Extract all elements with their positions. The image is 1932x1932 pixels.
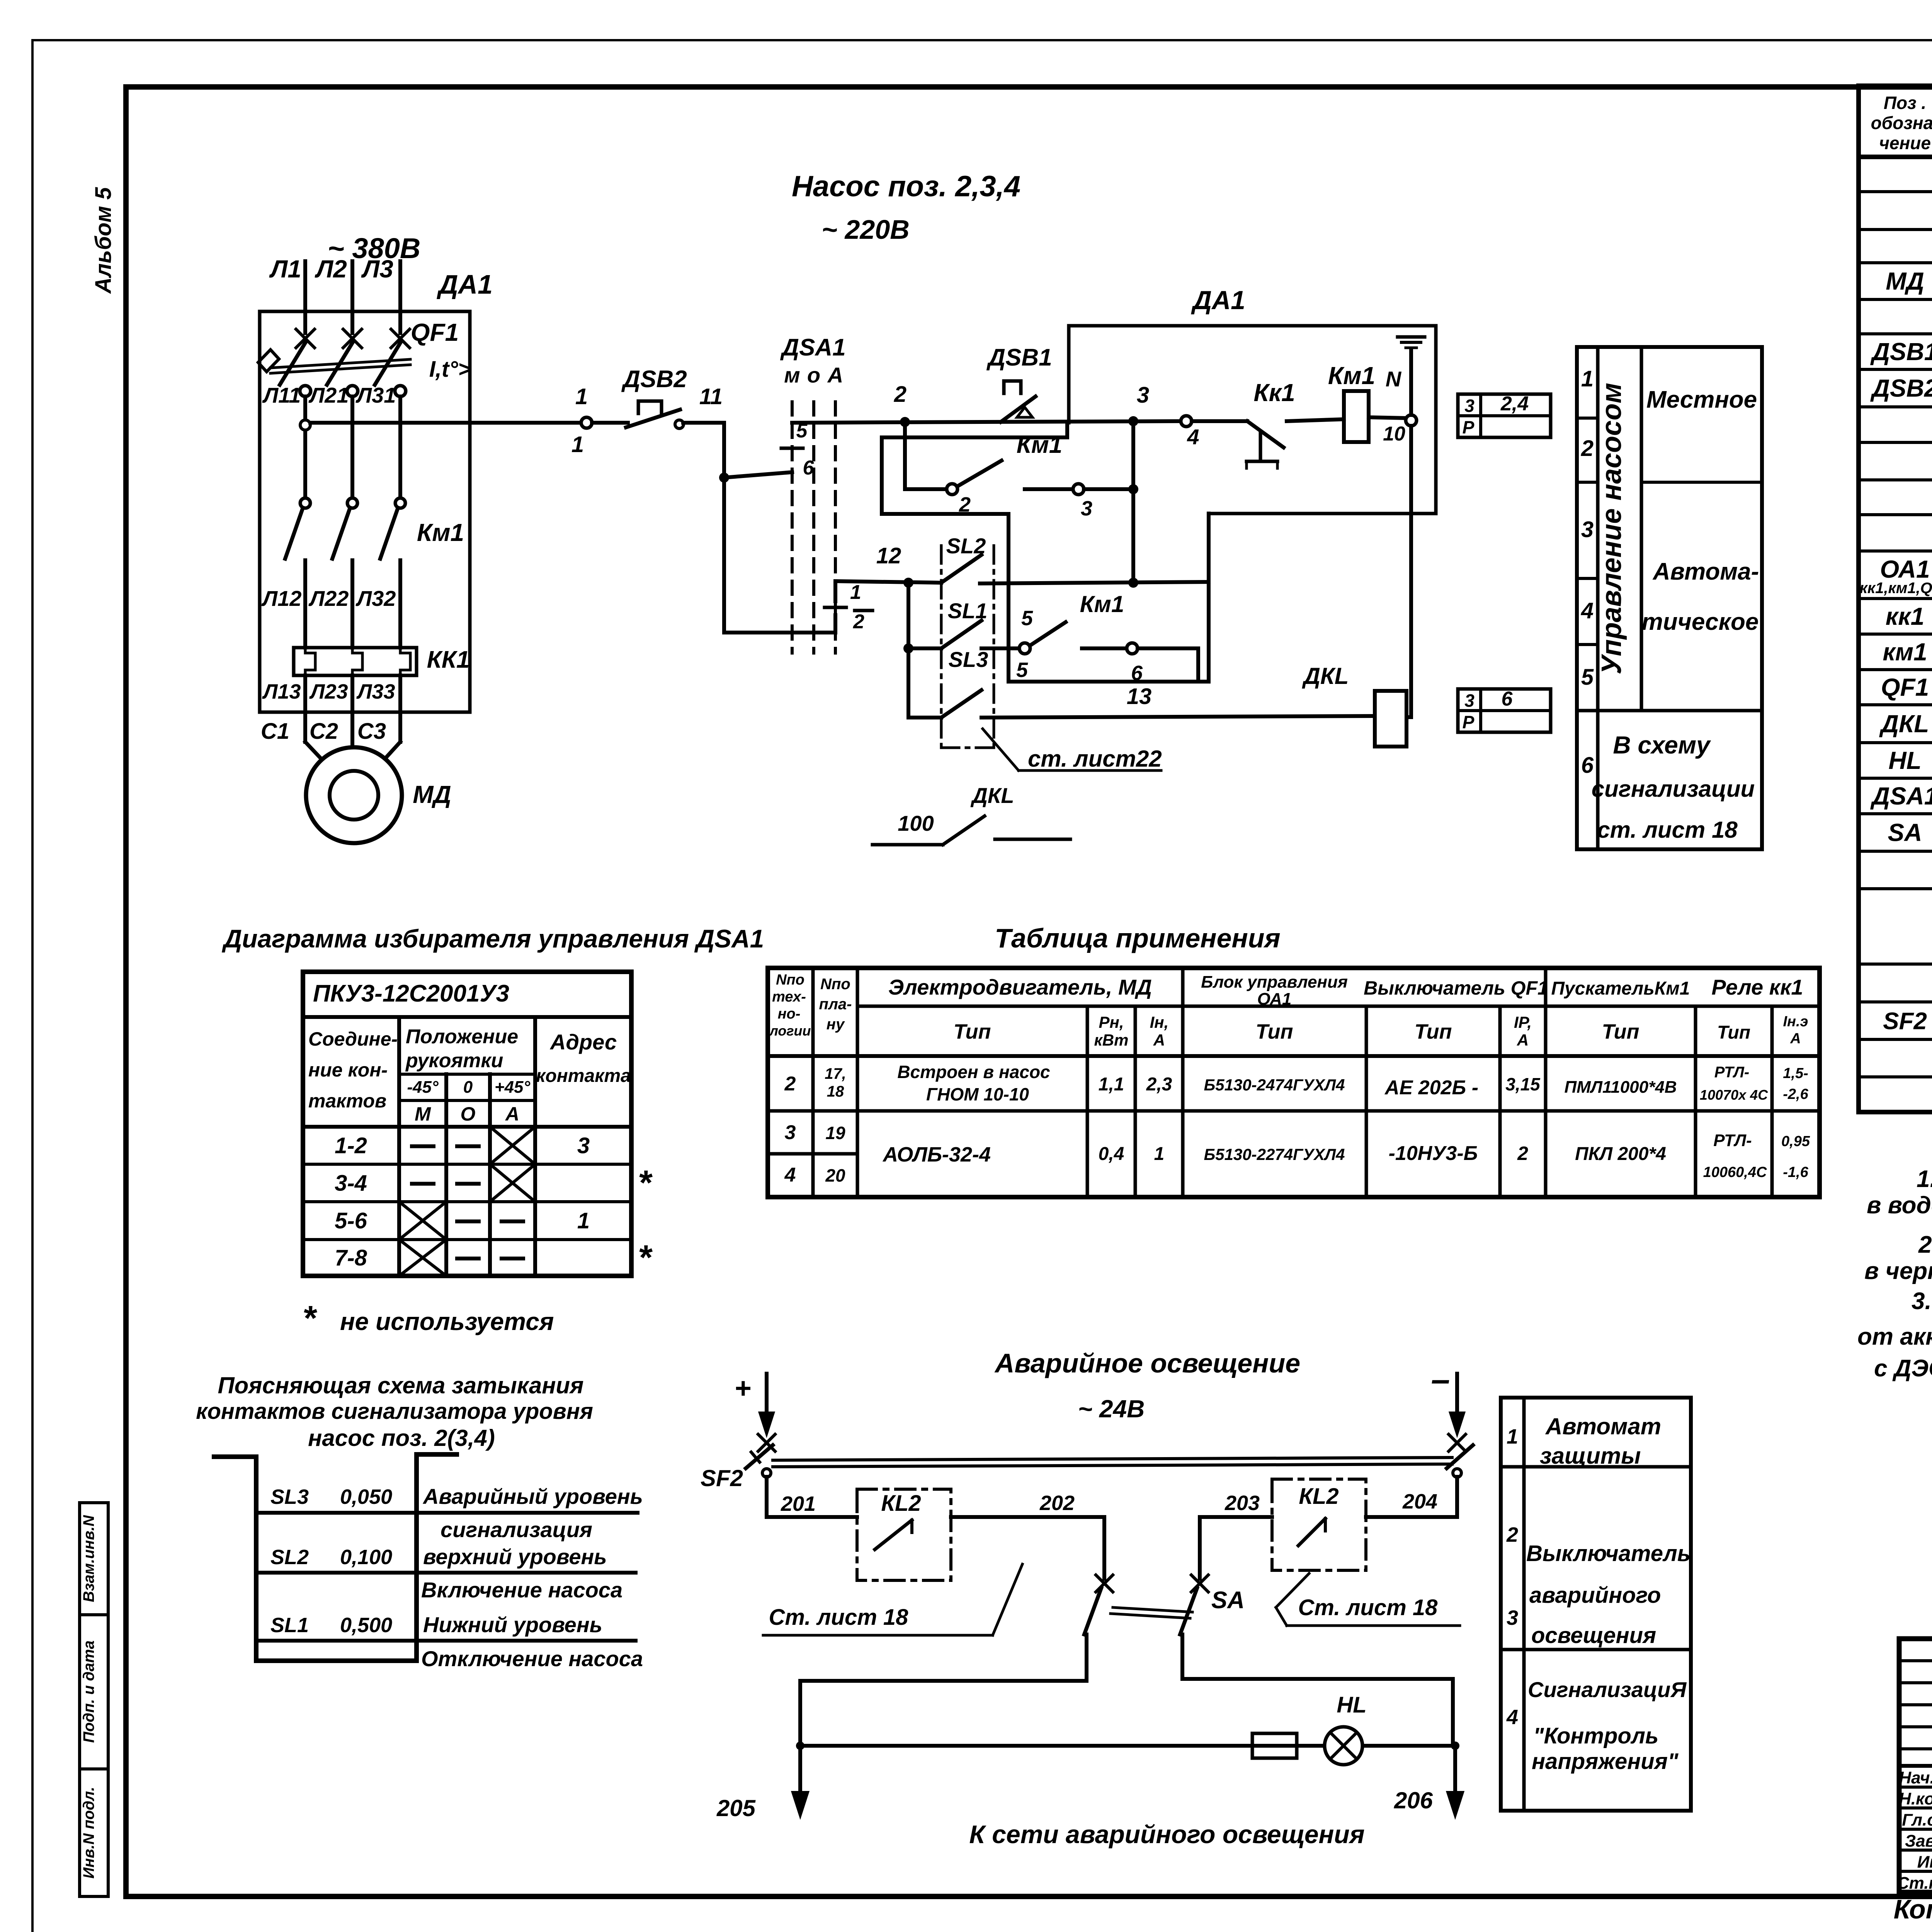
svg-text:А: А [1517,1031,1529,1049]
svg-text:КL2: КL2 [881,1491,921,1516]
svg-text:6: 6 [1502,688,1513,710]
svg-text:в водонасыщенных грунтах.: в водонасыщенных грунтах. [1867,1192,1932,1219]
svg-text:Насос поз. 2,3,4: Насос поз. 2,3,4 [792,170,1020,203]
svg-text:Таблица применения: Таблица применения [995,923,1281,953]
svg-text:кВт: кВт [1094,1031,1129,1049]
svg-text:ДКL: ДКL [1302,663,1349,689]
svg-text:О: О [461,1103,476,1125]
svg-text:Л2: Л2 [315,255,347,283]
svg-text:0,050: 0,050 [340,1485,392,1509]
svg-text:РТЛ-: РТЛ- [1713,1131,1752,1150]
svg-text:3: 3 [1464,396,1475,416]
svg-text:Б5130-2474ГУХЛ4: Б5130-2474ГУХЛ4 [1204,1076,1345,1094]
svg-text:205: 205 [716,1795,756,1821]
svg-text:РТЛ-: РТЛ- [1714,1064,1749,1081]
svg-text:Аварийный уровень: Аварийный уровень [422,1484,643,1509]
svg-text:1,1: 1,1 [1099,1074,1124,1095]
svg-text:19: 19 [825,1123,845,1143]
svg-text:Электродвигатель, МД: Электродвигатель, МД [888,975,1152,999]
svg-text:Тип: Тип [954,1020,991,1043]
svg-text:3: 3 [1507,1606,1518,1629]
svg-text:логии: логии [769,1023,811,1039]
svg-text:0,95: 0,95 [1781,1133,1810,1150]
svg-text:5: 5 [1021,607,1033,630]
svg-text:Взам.инв.N: Взам.инв.N [80,1515,97,1602]
svg-text:Инж.: Инж. [1917,1853,1932,1872]
svg-text:Км1: Км1 [417,519,464,546]
svg-text:ГНОМ 10-10: ГНОМ 10-10 [926,1084,1029,1104]
svg-text:18: 18 [827,1083,844,1100]
svg-text:100: 100 [898,811,934,835]
svg-text:пла-: пла- [819,996,852,1013]
svg-text:Встроен в насос: Встроен в насос [897,1062,1050,1082]
svg-text:Nпо: Nпо [820,976,850,993]
svg-text:Реле кк1: Реле кк1 [1711,975,1803,999]
svg-text:3: 3 [1081,497,1092,520]
svg-text:10: 10 [1383,423,1405,445]
svg-text:SL2: SL2 [946,534,986,558]
svg-text:Положение: Положение [406,1026,518,1048]
svg-text:с ДЭС.: с ДЭС. [1874,1355,1932,1382]
svg-text:ст. лист 18: ст. лист 18 [1597,817,1738,843]
svg-text:5-6: 5-6 [335,1208,367,1233]
svg-text:НL: НL [1337,1692,1366,1718]
svg-text:13: 13 [1127,684,1152,709]
svg-text:3: 3 [1464,690,1475,711]
svg-text:Nпо: Nпо [776,972,804,988]
svg-text:7-8: 7-8 [335,1245,367,1270]
svg-text:0,500: 0,500 [340,1614,392,1637]
svg-text:-10НУ3-Б: -10НУ3-Б [1389,1142,1478,1165]
svg-text:С2: С2 [310,719,338,744]
svg-text:ну: ну [827,1016,845,1033]
svg-text:"Контроль: "Контроль [1533,1723,1658,1748]
svg-text:Включение насоса: Включение насоса [421,1578,622,1602]
svg-text:Iн.э: Iн.э [1783,1014,1808,1030]
svg-text:201: 201 [781,1492,816,1515]
svg-text:206: 206 [1394,1787,1433,1813]
svg-text:3: 3 [785,1121,796,1144]
svg-text:Кк1: Кк1 [1253,379,1295,406]
svg-text:обозна-: обозна- [1871,113,1932,133]
svg-text:Н.контр.: Н.контр. [1899,1789,1932,1808]
svg-text:тическое: тическое [1642,609,1759,635]
svg-text:Выключатель QF1: Выключатель QF1 [1364,977,1548,999]
svg-text:Ст.техн.: Ст.техн. [1897,1874,1932,1893]
svg-text:Инв.N подл.: Инв.N подл. [80,1787,97,1879]
svg-text:SL2: SL2 [270,1546,309,1569]
svg-text:1: 1 [571,432,584,457]
svg-text:Управление насосом: Управление насосом [1596,383,1627,675]
svg-text:м: м [784,363,800,387]
svg-text:насос поз. 2(3,4): насос поз. 2(3,4) [308,1425,495,1451]
svg-text:Местное: Местное [1646,386,1757,413]
svg-text:ДSB1: ДSB1 [1870,338,1932,366]
svg-text:аварийного: аварийного [1529,1583,1661,1608]
svg-text:Гл.спец.: Гл.спец. [1902,1811,1932,1830]
svg-text:Л3: Л3 [361,255,393,283]
svg-text:Л31: Л31 [355,383,396,407]
svg-text:-2,6: -2,6 [1783,1086,1808,1102]
svg-text:QF1: QF1 [411,318,459,346]
svg-text:но-: но- [778,1006,801,1022]
svg-text:Л12: Л12 [261,586,302,611]
svg-text:Аварийное освещение: Аварийное освещение [994,1348,1300,1378]
svg-text:тактов: тактов [308,1090,386,1112]
svg-text:3: 3 [1137,383,1149,408]
svg-text:Р: Р [1463,712,1475,732]
svg-text:3: 3 [577,1133,590,1158]
svg-text:Л13: Л13 [262,680,301,703]
svg-text:Iн,: Iн, [1150,1013,1169,1031]
svg-text:Тип: Тип [1415,1020,1452,1043]
svg-text:А: А [1153,1031,1165,1049]
svg-text:11: 11 [699,384,723,409]
svg-text:ДКL: ДКL [1879,710,1929,738]
svg-text:5: 5 [1581,665,1594,690]
svg-text:2: 2 [853,611,864,633]
svg-text:напряжения": напряжения" [1532,1749,1679,1774]
svg-text:в чертежах электроосвещения: в чертежах электроосвещения ст. листы Эо… [1864,1258,1932,1284]
svg-text:Соедине-: Соедине- [308,1028,398,1050]
svg-text:3,15: 3,15 [1505,1074,1541,1094]
svg-text:кк1: кк1 [1886,602,1924,630]
svg-text:Л23: Л23 [309,680,348,703]
svg-text:*: * [302,1299,317,1338]
svg-text:Рн,: Рн, [1099,1013,1124,1031]
svg-text:SL3: SL3 [949,647,988,672]
svg-text:1: 1 [850,581,861,604]
svg-text:-1,6: -1,6 [1783,1164,1808,1180]
svg-text:верхний уровень: верхний уровень [423,1544,607,1569]
svg-text:20: 20 [825,1165,845,1185]
svg-text:2: 2 [1581,436,1594,461]
svg-text:0,4: 0,4 [1099,1144,1124,1164]
svg-text:4: 4 [1187,425,1199,449]
svg-text:контакта: контакта [536,1066,631,1086]
svg-text:АЕ 202Б -: АЕ 202Б - [1384,1077,1478,1099]
svg-text:А: А [1790,1031,1801,1047]
svg-text:~ 24В: ~ 24В [1078,1395,1145,1423]
svg-text:СигнализациЯ: СигнализациЯ [1528,1677,1687,1702]
svg-text:204: 204 [1402,1490,1437,1513]
svg-text:Зав. гр.: Зав. гр. [1905,1832,1932,1850]
svg-text:ПМЛ11000*4В: ПМЛ11000*4В [1565,1078,1677,1097]
svg-text:+45°: +45° [495,1078,531,1097]
svg-text:не используется: не используется [340,1308,554,1335]
svg-text:3: 3 [1581,517,1594,542]
svg-text:1: 1 [1154,1144,1165,1164]
svg-text:10060,4С: 10060,4С [1703,1164,1767,1180]
svg-text:контактов сигнализатора уровня: контактов сигнализатора уровня [196,1399,593,1424]
svg-text:Диаграмма избирателя управлени: Диаграмма избирателя управления ДSA1 [222,924,764,953]
svg-text:Км1: Км1 [1017,432,1062,458]
svg-text:чение: чение [1879,133,1931,153]
svg-text:4: 4 [1581,598,1594,623]
svg-text:Тип: Тип [1717,1022,1750,1043]
svg-text:Нач.отд.: Нач.отд. [1899,1769,1932,1787]
svg-text:защиты: защиты [1540,1443,1641,1469]
svg-text:рукоятки: рукоятки [405,1049,503,1072]
svg-text:SL1: SL1 [948,599,988,623]
svg-text:ДSB2: ДSB2 [621,366,687,393]
svg-text:2,4: 2,4 [1500,393,1529,415]
svg-text:SA: SA [1888,819,1922,847]
svg-text:1: 1 [575,384,588,409]
svg-text:~ 220В: ~ 220В [821,214,910,245]
svg-text:N: N [1386,367,1402,391]
svg-text:5: 5 [796,420,808,442]
svg-text:Л21: Л21 [308,383,349,407]
svg-text:Тип: Тип [1256,1020,1293,1043]
svg-text:1: 1 [1507,1425,1518,1448]
svg-text:Тип: Тип [1602,1020,1639,1043]
svg-text:4: 4 [1506,1706,1518,1729]
svg-text:Ст. лист 18: Ст. лист 18 [1298,1595,1438,1620]
svg-text:6: 6 [1131,662,1143,685]
svg-text:ПКЛ 200*4: ПКЛ 200*4 [1575,1144,1666,1164]
svg-text:Автомат: Автомат [1545,1413,1661,1439]
svg-text:ОА1: ОА1 [1257,990,1292,1009]
svg-text:2,3: 2,3 [1146,1074,1172,1095]
svg-text:1. Насосы поз. 2, 3, 4 устана: 1. Насосы поз. 2, 3, 4 устанавливаются т… [1917,1166,1932,1192]
svg-text:6: 6 [803,457,815,479]
svg-text:Отключение насоса: Отключение насоса [421,1646,643,1671]
svg-text:Л11: Л11 [262,383,301,407]
svg-text:IР,: IР, [1514,1013,1532,1031]
svg-text:SF2: SF2 [701,1465,743,1491]
svg-text:КК1: КК1 [427,646,470,673]
svg-text:SL3: SL3 [270,1485,309,1509]
svg-text:НL: НL [1888,747,1921,774]
svg-text:ДSB1: ДSB1 [986,344,1052,371]
svg-text:*: * [638,1238,653,1277]
svg-text:АОЛБ-32-4: АОЛБ-32-4 [882,1143,991,1166]
svg-text:сигнализации: сигнализации [1592,776,1755,802]
svg-text:Адрес: Адрес [549,1030,617,1054]
svg-text:Альбом 5: Альбом 5 [91,187,116,294]
svg-text:Нижний уровень: Нижний уровень [423,1612,602,1637]
svg-text:3. Питание аварийного освеще: 3. Питание аварийного освещения предусма… [1912,1288,1932,1315]
svg-text:*: * [638,1164,653,1202]
svg-text:Поз .: Поз . [1884,93,1926,113]
svg-text:ДА1: ДА1 [437,269,493,299]
svg-text:1,5-: 1,5- [1783,1065,1808,1082]
svg-text:ние кон-: ние кон- [308,1059,388,1081]
svg-text:4: 4 [784,1164,796,1186]
svg-text:2: 2 [1506,1523,1518,1546]
svg-text:В схему: В схему [1613,731,1711,759]
svg-text:МД: МД [413,781,451,808]
svg-text:ДSA1: ДSA1 [780,334,845,361]
svg-text:5: 5 [1016,658,1028,682]
svg-text:SA: SA [1211,1587,1245,1614]
svg-text:-45°: -45° [407,1078,439,1097]
svg-text:тех-: тех- [772,989,806,1005]
svg-text:SF2: SF2 [1883,1008,1927,1035]
svg-text:ДА1: ДА1 [1191,286,1245,315]
svg-text:203: 203 [1225,1492,1260,1515]
svg-text:МД: МД [1886,267,1924,295]
svg-text:Р: Р [1463,417,1475,437]
svg-text:2: 2 [784,1073,796,1095]
svg-text:Блок управления: Блок управления [1201,973,1348,992]
svg-text:6: 6 [1581,753,1594,778]
svg-text:ДSA1: ДSA1 [1870,782,1932,810]
svg-text:QF1: QF1 [1881,673,1929,701]
svg-text:1: 1 [1581,366,1594,391]
svg-text:А: А [827,363,843,387]
svg-text:Л22: Л22 [308,586,349,611]
svg-text:Л1: Л1 [269,255,301,283]
svg-text:12: 12 [876,543,901,568]
svg-text:Автома-: Автома- [1652,558,1759,585]
svg-text:2: 2 [894,382,906,407]
svg-text:ОА1: ОА1 [1880,555,1930,583]
svg-text:0,100: 0,100 [340,1546,392,1569]
svg-text:Км1: Км1 [1328,362,1375,389]
svg-text:А: А [505,1103,519,1125]
svg-text:КL2: КL2 [1299,1484,1338,1509]
svg-text:1-2: 1-2 [335,1133,367,1158]
svg-text:о: о [807,363,820,387]
svg-text:освещения: освещения [1531,1623,1656,1648]
svg-text:ПускательКм1: ПускательКм1 [1551,978,1690,999]
svg-text:1: 1 [577,1208,590,1233]
svg-text:ПКУ3-12С2001У3: ПКУ3-12С2001У3 [313,980,509,1007]
svg-text:М: М [415,1103,431,1125]
svg-text:Км1: Км1 [1080,591,1124,617]
svg-text:SL1: SL1 [270,1614,309,1637]
svg-text:I,t°>: I,t°> [429,357,471,382]
svg-text:кк1,км1,QF1: кк1,км1,QF1 [1860,580,1932,597]
svg-text:Ст. лист 18: Ст. лист 18 [769,1605,909,1630]
svg-text:Подп. и дата: Подп. и дата [80,1641,97,1743]
svg-text:ДКL: ДКL [970,783,1014,808]
svg-text:0: 0 [463,1078,473,1097]
svg-text:ДSB2: ДSB2 [1870,374,1932,402]
svg-text:2: 2 [959,493,971,516]
svg-text:202: 202 [1039,1492,1075,1515]
svg-text:2. Выключатель автоматическ: 2. Выключатель автоматический SF2 учтен [1918,1231,1932,1258]
svg-text:2: 2 [1517,1143,1528,1164]
svg-text:К сети аварийного освещения: К сети аварийного освещения [969,1820,1364,1849]
svg-text:3-4: 3-4 [335,1171,367,1196]
svg-text:–: – [1431,1360,1450,1398]
svg-text:сигнализация: сигнализация [440,1517,592,1542]
svg-text:Б5130-2274ГУХЛ4: Б5130-2274ГУХЛ4 [1204,1145,1345,1163]
svg-text:Л33: Л33 [356,680,395,703]
svg-text:Л32: Л32 [355,586,396,611]
svg-text:+: + [734,1372,751,1404]
svg-text:С1: С1 [261,719,289,744]
svg-text:км1: км1 [1883,638,1927,666]
svg-text:от аккумуляторной батареи,: от аккумуляторной батареи, поставляемой … [1857,1323,1932,1350]
svg-text:С3: С3 [357,719,386,744]
svg-text:17,: 17, [825,1065,846,1082]
svg-text:10070х 4С: 10070х 4С [1700,1087,1768,1103]
svg-text:Копировал: Копировал [1894,1894,1932,1924]
svg-text:Поясняющая схема затыкания: Поясняющая схема затыкания [218,1372,584,1398]
svg-text:Выключатель: Выключатель [1526,1541,1690,1566]
svg-text:ст. лист22: ст. лист22 [1028,746,1162,772]
